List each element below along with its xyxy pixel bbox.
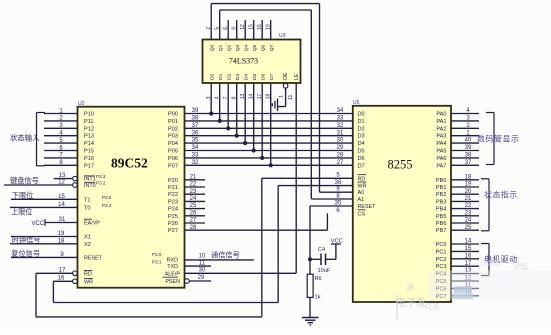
8255 pin 17 PC3 stub bbox=[436, 261, 479, 270]
89C52 pin 19 X1 wire bbox=[11, 231, 91, 241]
89C52 pin 27 P26 stub bbox=[168, 218, 205, 227]
74LS373 output Q2 pin 6 bbox=[223, 20, 233, 51]
svg-text:P04: P04 bbox=[168, 141, 178, 147]
89C52 pin 23 P22 stub bbox=[168, 189, 205, 198]
svg-text:15: 15 bbox=[58, 194, 65, 200]
svg-text:通信信号: 通信信号 bbox=[211, 251, 240, 260]
wire Q0 pin2 to 8255 A0 pin 9 bbox=[211, 4, 353, 193]
svg-text:时钟信号: 时钟信号 bbox=[12, 235, 41, 244]
svg-text:T0: T0 bbox=[84, 206, 91, 212]
svg-text:PA7: PA7 bbox=[436, 163, 446, 169]
8255 pin 5 RD stub bbox=[262, 173, 366, 183]
8255 pin 22 PB4 stub bbox=[436, 203, 479, 212]
74LS373 output Q7 pin 19 bbox=[266, 20, 276, 51]
watermark bbox=[396, 258, 551, 319]
svg-text:12: 12 bbox=[58, 180, 65, 186]
svg-text:28: 28 bbox=[337, 153, 344, 159]
svg-text:D4: D4 bbox=[244, 73, 250, 80]
8255 pin 38 PA6 stub bbox=[436, 153, 479, 162]
svg-text:13: 13 bbox=[240, 94, 246, 100]
svg-text:D3: D3 bbox=[358, 134, 365, 140]
svg-text:6: 6 bbox=[223, 27, 229, 30]
svg-text:PC2: PC2 bbox=[436, 257, 447, 263]
svg-text:P12: P12 bbox=[84, 126, 94, 132]
svg-text:23: 23 bbox=[465, 210, 472, 216]
svg-text:CS: CS bbox=[358, 211, 366, 217]
svg-text:17: 17 bbox=[465, 261, 472, 267]
svg-text:20: 20 bbox=[465, 189, 472, 195]
svg-text:30: 30 bbox=[337, 138, 344, 144]
svg-text:8255: 8255 bbox=[388, 158, 413, 172]
svg-text:29: 29 bbox=[198, 275, 205, 281]
svg-text:P27: P27 bbox=[168, 228, 178, 234]
svg-text:32: 32 bbox=[192, 160, 199, 166]
svg-text:32: 32 bbox=[337, 123, 344, 129]
svg-text:25: 25 bbox=[190, 203, 197, 209]
svg-text:PB0: PB0 bbox=[436, 178, 447, 184]
svg-text:复位信号: 复位信号 bbox=[11, 249, 40, 258]
svg-text:P3.1: P3.1 bbox=[152, 259, 162, 264]
svg-text:33: 33 bbox=[337, 116, 344, 122]
svg-text:15: 15 bbox=[465, 246, 472, 252]
svg-text:P02: P02 bbox=[168, 126, 178, 132]
svg-text:PB3: PB3 bbox=[436, 199, 447, 205]
svg-text:P15: P15 bbox=[84, 149, 94, 155]
op IC U2 89C52 body bbox=[78, 107, 185, 288]
svg-text:WR: WR bbox=[358, 184, 367, 190]
8255 pin 20 PB2 stub bbox=[436, 189, 479, 198]
svg-text:1k: 1k bbox=[315, 295, 321, 301]
svg-text:发烧友: 发烧友 bbox=[481, 258, 502, 267]
svg-text:P06: P06 bbox=[168, 156, 178, 162]
svg-text:24: 24 bbox=[190, 196, 197, 202]
svg-text:RD: RD bbox=[358, 176, 366, 182]
svg-text:35: 35 bbox=[192, 138, 199, 144]
capacitor C4 10uF bbox=[310, 247, 336, 274]
74LS373 input D3 pin 8 wire to P03 with junction bbox=[232, 73, 242, 137]
svg-text:INT1: INT1 bbox=[84, 177, 96, 183]
svg-text:P01: P01 bbox=[168, 119, 178, 125]
svg-text:P10: P10 bbox=[84, 112, 94, 118]
svg-text:21: 21 bbox=[465, 196, 472, 202]
74LS373 output Q5 pin 15 bbox=[249, 20, 259, 51]
89C52 pin 29 PSEN stub bbox=[163, 275, 212, 285]
svg-text:PC0: PC0 bbox=[436, 242, 447, 248]
ground below R6 bbox=[302, 297, 319, 325]
svg-text:P11: P11 bbox=[84, 119, 94, 125]
svg-text:14: 14 bbox=[58, 202, 65, 208]
svg-text:4: 4 bbox=[215, 96, 221, 99]
svg-text:EA/VP: EA/VP bbox=[84, 221, 100, 227]
wire P04 bus 89C52 pin 35 to 8255 D4 pin 30 bbox=[168, 138, 365, 147]
8255 pin 36 WR stub bbox=[278, 180, 366, 190]
89C52 pin 1 P10 bbox=[44, 108, 94, 117]
svg-text:D5: D5 bbox=[358, 149, 365, 155]
89C52 pin 5 P14 bbox=[44, 138, 94, 147]
svg-text:P26: P26 bbox=[168, 221, 178, 227]
74LS373 input D4 pin 13 wire to P04 with junction bbox=[240, 73, 250, 145]
svg-text:14: 14 bbox=[465, 239, 472, 245]
74LS373 output Q6 pin 16 bbox=[257, 20, 267, 51]
svg-text:23: 23 bbox=[190, 189, 197, 195]
89C52 pin 18 X2 wire + label 时钟信号 bbox=[10, 235, 91, 248]
svg-text:状态指示: 状态指示 bbox=[484, 190, 518, 200]
svg-text:PC1: PC1 bbox=[436, 249, 447, 255]
89C52 pin 10 RXD stub + label 通信信号 bbox=[152, 251, 254, 264]
74LS373 input D7 pin 18 wire to P07 with junction bbox=[266, 73, 276, 167]
svg-text:PA2: PA2 bbox=[436, 126, 446, 132]
74LS373 pin 11 LE bbox=[288, 73, 300, 100]
svg-text:D7: D7 bbox=[358, 163, 365, 169]
svg-text:24: 24 bbox=[465, 218, 472, 224]
svg-text:T1: T1 bbox=[84, 198, 91, 204]
svg-text:34: 34 bbox=[337, 108, 344, 114]
8255 pin 40 PA4 stub bbox=[436, 138, 479, 147]
svg-text:INT0: INT0 bbox=[84, 183, 96, 189]
svg-text:OE: OE bbox=[283, 72, 289, 80]
svg-text:D6: D6 bbox=[261, 73, 267, 80]
svg-text:P23: P23 bbox=[168, 199, 178, 205]
svg-text:P17: P17 bbox=[84, 163, 94, 169]
svg-text:40: 40 bbox=[465, 138, 472, 144]
svg-text:RXD: RXD bbox=[167, 258, 178, 264]
svg-text:P00: P00 bbox=[168, 112, 178, 118]
8255 pin 4 PA0 stub bbox=[436, 108, 479, 117]
svg-text:P3.4: P3.4 bbox=[102, 203, 112, 208]
74LS373 input D0 pin 3 wire to P00 with junction bbox=[206, 73, 216, 115]
svg-text:D2: D2 bbox=[227, 73, 233, 80]
89C52 pin 9 RESET wire + label 复位信号 bbox=[11, 249, 103, 262]
89C52 pin 8 P17 bbox=[44, 160, 94, 169]
svg-text:ALE/P: ALE/P bbox=[165, 271, 181, 277]
89C52 pin 16 WR wire loop to 8255 WR bbox=[53, 186, 278, 303]
svg-text:18: 18 bbox=[266, 94, 272, 100]
74LS373 pin 1 OE with ground bbox=[272, 72, 289, 111]
svg-text:39: 39 bbox=[465, 145, 472, 151]
svg-text:10: 10 bbox=[199, 254, 206, 260]
wire Q1 pin5 to 8255 A1 pin 8 bbox=[220, 10, 353, 199]
svg-text:37: 37 bbox=[192, 123, 199, 129]
svg-text:PA0: PA0 bbox=[436, 112, 446, 118]
svg-text:P3.5: P3.5 bbox=[102, 195, 112, 200]
89C52 pin 12 INT0 wire + label 键盘信号 bbox=[4, 176, 106, 189]
wire P05 bus 89C52 pin 34 to 8255 D5 pin 29 bbox=[168, 145, 365, 154]
svg-text:14: 14 bbox=[249, 94, 255, 100]
svg-text:17: 17 bbox=[59, 268, 66, 274]
svg-text:19: 19 bbox=[266, 24, 272, 30]
svg-text:Q3: Q3 bbox=[235, 44, 241, 51]
svg-text:VCC: VCC bbox=[32, 221, 45, 227]
bracket PC motor group + label 电机驱动 bbox=[481, 244, 518, 276]
svg-text:PB6: PB6 bbox=[436, 221, 447, 227]
svg-text:P21: P21 bbox=[168, 185, 178, 191]
89C52 pin 6 P15 bbox=[44, 145, 94, 154]
svg-text:X2: X2 bbox=[84, 242, 91, 248]
svg-text:D2: D2 bbox=[358, 126, 365, 132]
8255 pin 13 PC4 stub bbox=[436, 268, 479, 277]
svg-text:P14: P14 bbox=[84, 141, 94, 147]
svg-text:P20: P20 bbox=[168, 178, 178, 184]
8255 pin 16 PC2 stub bbox=[436, 253, 479, 262]
8255 pin 25 PB7 stub bbox=[436, 225, 479, 234]
svg-text:21: 21 bbox=[190, 174, 197, 180]
89C52 pin 2 P11 bbox=[44, 116, 94, 125]
svg-text:上限位: 上限位 bbox=[11, 208, 33, 217]
wire P27 pin 28 to 8255 CS pin 6 bbox=[168, 213, 327, 234]
svg-text:P07: P07 bbox=[168, 163, 178, 169]
svg-text:状态输入: 状态输入 bbox=[10, 133, 40, 142]
svg-text:Q4: Q4 bbox=[244, 44, 250, 51]
svg-text:P3.2: P3.2 bbox=[96, 181, 106, 186]
svg-text:22: 22 bbox=[465, 203, 472, 209]
svg-text:PB5: PB5 bbox=[436, 214, 447, 220]
svg-text:22: 22 bbox=[190, 182, 197, 188]
svg-text:D7: D7 bbox=[269, 73, 275, 80]
svg-text:27: 27 bbox=[190, 218, 197, 224]
8255 pin 1 PA3 stub bbox=[436, 130, 479, 139]
wire P02 bus 89C52 pin 37 to 8255 D2 pin 32 bbox=[168, 123, 365, 132]
89C52 pin 22 P21 stub bbox=[168, 182, 205, 191]
svg-text:Q6: Q6 bbox=[261, 44, 267, 51]
74LS373 output Q4 pin 12 bbox=[240, 20, 250, 51]
svg-text:Q1: Q1 bbox=[218, 44, 224, 51]
svg-text:16: 16 bbox=[58, 276, 65, 282]
svg-text:36: 36 bbox=[192, 130, 199, 136]
svg-text:31: 31 bbox=[337, 130, 344, 136]
svg-text:3: 3 bbox=[206, 96, 212, 99]
8255 pin 39 PA5 stub bbox=[436, 145, 479, 154]
89C52 pin 4 P13 bbox=[44, 131, 94, 140]
svg-text:A0: A0 bbox=[358, 190, 365, 196]
svg-text:P3.0: P3.0 bbox=[152, 252, 162, 257]
svg-text:PA5: PA5 bbox=[436, 149, 446, 155]
svg-text:RD: RD bbox=[84, 271, 92, 277]
svg-text:RESET: RESET bbox=[358, 204, 377, 210]
svg-text:18: 18 bbox=[465, 174, 472, 180]
svg-text:D0: D0 bbox=[210, 73, 216, 80]
svg-text:Q7: Q7 bbox=[269, 44, 275, 51]
74LS373 output Q3 pin 9 bbox=[232, 20, 242, 51]
svg-text:30: 30 bbox=[199, 268, 206, 274]
svg-text:P13: P13 bbox=[84, 134, 94, 140]
svg-text:38: 38 bbox=[465, 153, 472, 159]
89C52 pin 7 P16 bbox=[44, 153, 94, 162]
89C52 pin 21 P20 stub bbox=[168, 174, 205, 183]
74LS373 input D6 pin 17 wire to P06 with junction bbox=[257, 73, 267, 160]
8255 pin 15 PC1 stub bbox=[436, 246, 479, 255]
svg-text:26: 26 bbox=[190, 210, 197, 216]
svg-text:18: 18 bbox=[58, 238, 65, 244]
svg-text:VCC: VCC bbox=[331, 239, 343, 245]
svg-text:D5: D5 bbox=[252, 73, 258, 80]
svg-text:15: 15 bbox=[249, 24, 255, 30]
svg-text:PB7: PB7 bbox=[436, 228, 447, 234]
svg-text:PC3: PC3 bbox=[436, 264, 447, 270]
8255 pin 23 PB5 stub bbox=[436, 210, 479, 219]
svg-text:PA1: PA1 bbox=[436, 119, 446, 125]
svg-text:D6: D6 bbox=[358, 156, 365, 162]
8255 pin 24 PB6 stub bbox=[436, 218, 479, 227]
svg-text:33: 33 bbox=[192, 153, 199, 159]
svg-text:PB2: PB2 bbox=[436, 192, 447, 198]
svg-text:U5: U5 bbox=[353, 100, 360, 106]
svg-text:PA4: PA4 bbox=[436, 141, 446, 147]
svg-text:P03: P03 bbox=[168, 134, 178, 140]
resistor R6 1k bbox=[307, 259, 321, 300]
89C52 pin 26 P25 stub bbox=[168, 210, 205, 219]
svg-text:9: 9 bbox=[232, 27, 238, 30]
svg-text:Q5: Q5 bbox=[252, 44, 258, 51]
svg-text:19: 19 bbox=[465, 182, 472, 188]
89C52 pin 15 T1 wire + label 下限位 bbox=[11, 191, 112, 203]
89C52 pin 11 TXD stub bbox=[152, 259, 211, 270]
8255 pin 35 RESET wire to RC node bbox=[310, 200, 376, 259]
svg-text:10uF: 10uF bbox=[318, 268, 331, 274]
power VCC above C4 bbox=[331, 239, 343, 260]
svg-text:7: 7 bbox=[223, 96, 229, 99]
svg-text:烧友: 烧友 bbox=[424, 301, 440, 311]
svg-text:LE: LE bbox=[294, 73, 300, 80]
89C52 pin 25 P24 stub bbox=[168, 203, 205, 212]
wire P01 bus 89C52 pin 38 to 8255 D1 pin 33 bbox=[168, 116, 365, 125]
svg-text:TXD: TXD bbox=[167, 264, 178, 270]
svg-text:D0: D0 bbox=[358, 112, 365, 118]
svg-text:P25: P25 bbox=[168, 214, 178, 220]
74LS373 output Q1 pin 5 bbox=[215, 27, 225, 52]
8255 pin 12 PC5 stub bbox=[436, 276, 479, 285]
svg-text:R6: R6 bbox=[315, 276, 322, 282]
89C52 pin 3 P12 bbox=[44, 123, 94, 132]
wire P00 bus 89C52 pin 39 to 8255 D0 pin 34 bbox=[168, 108, 365, 117]
89C52 pin 17 RD wire loop to 8255 RD bbox=[36, 178, 262, 317]
svg-text:D1: D1 bbox=[358, 119, 365, 125]
8255 pin 9 A0 stub bbox=[336, 187, 364, 197]
svg-text:1: 1 bbox=[279, 95, 285, 98]
svg-text:13: 13 bbox=[59, 173, 66, 179]
8255 pin 3 PA1 stub bbox=[436, 116, 479, 125]
74LS373 input D1 pin 4 wire to P01 with junction bbox=[215, 73, 225, 123]
svg-text:37: 37 bbox=[465, 160, 472, 166]
8255 pin 6 CS stub bbox=[336, 208, 365, 218]
svg-text:11: 11 bbox=[199, 261, 206, 267]
svg-text:PA3: PA3 bbox=[436, 134, 446, 140]
svg-text:P24: P24 bbox=[168, 207, 178, 213]
svg-text:PA6: PA6 bbox=[436, 156, 446, 162]
svg-text:29: 29 bbox=[337, 145, 344, 151]
node reset RC junction bbox=[308, 257, 312, 261]
svg-text:PB4: PB4 bbox=[436, 207, 447, 213]
svg-text:数码管显示: 数码管显示 bbox=[477, 134, 520, 144]
svg-text:X1: X1 bbox=[84, 235, 91, 241]
svg-text:D3: D3 bbox=[235, 73, 241, 80]
svg-text:源: 源 bbox=[406, 283, 414, 292]
wire P07 bus 89C52 pin 32 to 8255 D7 pin 27 bbox=[168, 160, 365, 169]
wire P06 bus 89C52 pin 33 to 8255 D6 pin 28 bbox=[168, 153, 365, 162]
74LS373 input D2 pin 7 wire to P02 with junction bbox=[223, 73, 233, 130]
svg-text:89C52: 89C52 bbox=[111, 156, 148, 171]
svg-text:16: 16 bbox=[465, 253, 472, 259]
bracket PA group + label 数码管显示 bbox=[477, 113, 520, 165]
svg-text:电子发: 电子发 bbox=[396, 296, 426, 309]
svg-text:D4: D4 bbox=[358, 141, 365, 147]
svg-text:U3: U3 bbox=[279, 33, 286, 39]
74LS373 output Q0 pin 2 bbox=[206, 27, 216, 52]
svg-text:D1: D1 bbox=[218, 73, 224, 80]
svg-text:P22: P22 bbox=[168, 192, 178, 198]
8255 pin 10 PC7 stub bbox=[436, 290, 479, 299]
wire ALE/P pin 30 to 74LS373 LE bbox=[165, 83, 296, 277]
svg-text:19: 19 bbox=[58, 231, 65, 237]
svg-text:A1: A1 bbox=[358, 197, 365, 203]
svg-text:论坛: 论坛 bbox=[513, 261, 529, 271]
svg-text:38: 38 bbox=[192, 116, 199, 122]
op IC U3 74LS373 body bbox=[203, 40, 301, 84]
svg-text:RESET: RESET bbox=[84, 256, 103, 262]
svg-text:16: 16 bbox=[257, 24, 263, 30]
89C52 pin 24 P23 stub bbox=[168, 196, 205, 205]
svg-text:25: 25 bbox=[465, 225, 472, 231]
svg-text:74LS373: 74LS373 bbox=[229, 57, 258, 66]
svg-text:PB1: PB1 bbox=[436, 185, 447, 191]
svg-text:34: 34 bbox=[192, 145, 199, 151]
8255 pin 18 PB0 stub bbox=[436, 174, 479, 183]
bracket PB group + label 状态指示 bbox=[481, 179, 518, 231]
89C52 pin 14 T0 wire + label 上限位 bbox=[10, 202, 112, 217]
8255 pin 8 A1 stub bbox=[336, 193, 364, 203]
8255 pin 14 PC0 stub bbox=[436, 239, 479, 248]
svg-text:31: 31 bbox=[59, 217, 66, 223]
svg-text:8: 8 bbox=[232, 96, 238, 99]
svg-text:27: 27 bbox=[337, 160, 344, 166]
svg-text:U2: U2 bbox=[78, 101, 85, 107]
svg-text:39: 39 bbox=[192, 108, 199, 114]
8255 pin 2 PA2 stub bbox=[436, 123, 479, 132]
svg-text:Q0: Q0 bbox=[210, 44, 216, 51]
svg-text:P3.3: P3.3 bbox=[96, 174, 106, 179]
power VCC to pin 31 EA/VP bbox=[32, 217, 101, 227]
svg-text:11: 11 bbox=[288, 95, 294, 100]
89C52 pin 13 INT1 bbox=[54, 173, 106, 183]
8255 pin 21 PB3 stub bbox=[436, 196, 479, 205]
wire P03 bus 89C52 pin 36 to 8255 D3 pin 31 bbox=[168, 130, 365, 139]
svg-text:28: 28 bbox=[190, 225, 197, 231]
8255 pin 37 PA7 stub bbox=[436, 160, 479, 169]
svg-text:Q2: Q2 bbox=[227, 44, 233, 51]
svg-text:PSEN: PSEN bbox=[165, 279, 180, 285]
svg-text:键盘信号: 键盘信号 bbox=[10, 176, 39, 185]
svg-text:P16: P16 bbox=[84, 156, 94, 162]
svg-text:12: 12 bbox=[240, 24, 246, 30]
svg-text:17: 17 bbox=[257, 94, 263, 100]
svg-text:P05: P05 bbox=[168, 149, 178, 155]
svg-text:下限位: 下限位 bbox=[12, 191, 34, 200]
74LS373 input D5 pin 14 wire to P05 with junction bbox=[249, 73, 259, 152]
svg-text:C4: C4 bbox=[318, 247, 325, 253]
8255 pin 11 PC6 stub bbox=[436, 283, 479, 292]
bracket status-input pins 1-8 bbox=[37, 113, 46, 166]
svg-text:WR: WR bbox=[84, 279, 93, 285]
8255 pin 19 PB1 stub bbox=[436, 182, 479, 191]
op IC U5 8255 body bbox=[353, 106, 451, 302]
